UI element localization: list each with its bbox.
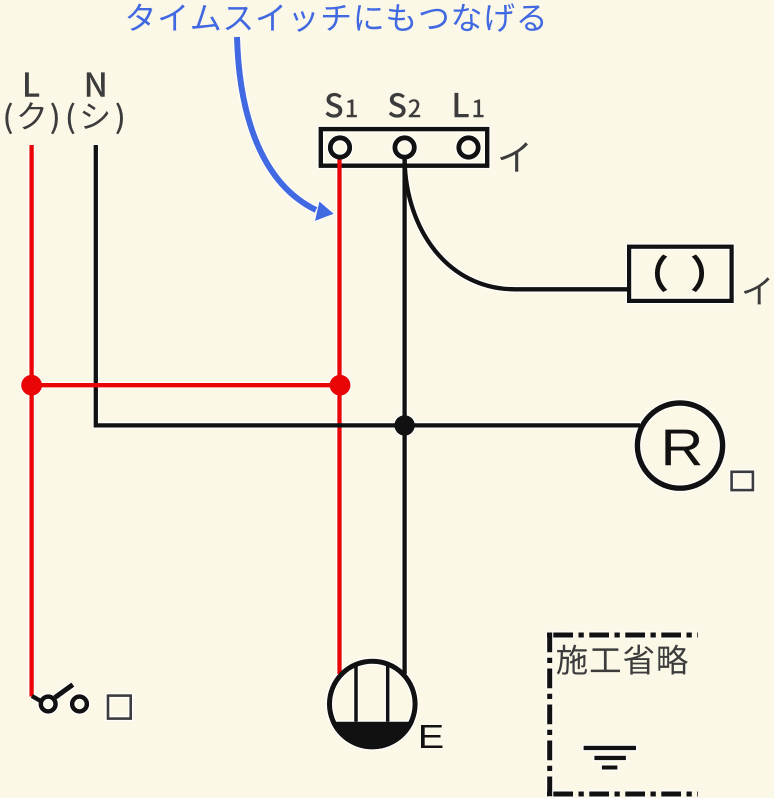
svg-text:E: E — [418, 718, 444, 755]
annotation arrow — [237, 37, 316, 210]
wire S1 to lamp (red) — [337, 155, 341, 674]
switch contact circle 1 — [41, 697, 56, 712]
junction dot on S2 wire — [394, 415, 414, 435]
lamp inner right line — [386, 662, 390, 722]
terminal S1 circle — [330, 138, 349, 157]
node L paren close — [51, 103, 58, 135]
wire N down and right to ringer R (black) — [96, 145, 640, 425]
earth ground symbol — [584, 746, 636, 770]
terminal L1 circle — [459, 138, 478, 157]
node L paren open — [5, 103, 12, 135]
timer switch TS terminal box — [321, 129, 487, 166]
switch blade link — [32, 696, 42, 702]
wire S2 to pilot lamp box (black curve) — [405, 160, 628, 289]
lamp filled bottom segment — [331, 722, 414, 750]
svg-text:R: R — [660, 418, 703, 477]
terminal label S1 — [325, 93, 342, 118]
annotation text: connect to the time switch too — [127, 3, 543, 32]
lamp inner left line — [354, 663, 358, 722]
label イ for pilot lamp — [744, 277, 770, 304]
junction dot on L wire — [21, 375, 42, 396]
node L (live) label — [25, 72, 39, 96]
node N paren open — [68, 103, 75, 135]
node N paren close — [116, 103, 123, 135]
ringer mark square — [732, 472, 753, 490]
ringer R circle — [637, 403, 722, 488]
wire L down to switch (red) — [29, 145, 33, 697]
pilot lamp parens — [656, 256, 703, 291]
wire L to S1 horizontal (red) — [32, 383, 340, 387]
label イ for timer switch — [500, 142, 528, 171]
node N (neutral) label — [87, 72, 105, 96]
lamp label E — [418, 718, 444, 755]
construction omitted text — [557, 645, 688, 675]
construction omitted box border bottom — [547, 792, 698, 797]
lamp receptacle circle — [330, 661, 416, 747]
junction dot on S1 wire — [330, 375, 351, 396]
switch contact circle 2 — [72, 697, 87, 712]
wire S2 to lamp (black) — [402, 155, 406, 674]
terminal label S2 — [389, 93, 406, 118]
terminal S2 circle — [395, 138, 414, 157]
node N kana (shi) — [82, 103, 108, 128]
terminal label L1 — [454, 93, 468, 117]
node L kana (ku) — [19, 102, 44, 129]
construction omitted box border left — [547, 633, 552, 798]
switch mark square — [108, 696, 131, 719]
switch blade — [55, 685, 73, 698]
construction omitted box border top — [547, 633, 698, 638]
ringer R letter — [660, 418, 703, 477]
pilot lamp box — [629, 247, 732, 301]
